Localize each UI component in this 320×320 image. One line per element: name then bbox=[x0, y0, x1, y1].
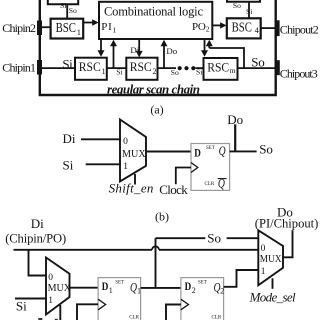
BSC cell above BSC4 (cut off) bbox=[227, 0, 260, 2]
svg-text:SET: SET bbox=[115, 280, 124, 285]
svg-text:MUX: MUX bbox=[48, 282, 71, 294]
wire Chipin1 to RSC1 bbox=[41, 67, 75, 69]
svg-text:Si: Si bbox=[60, 1, 66, 10]
svg-text:0: 0 bbox=[123, 137, 128, 147]
svg-text:1: 1 bbox=[137, 287, 141, 296]
wire Q to So bbox=[230, 150, 257, 152]
wire Di rail (c) with hop bbox=[14, 249, 153, 251]
svg-text:Di: Di bbox=[31, 216, 44, 231]
svg-text:(PI/Chipout): (PI/Chipout) bbox=[255, 216, 318, 230]
svg-text:Combinational logic: Combinational logic bbox=[104, 4, 203, 18]
wire Di into RSC2 (down arrow) bbox=[138, 39, 140, 53]
wire Di branch to MUX input 0 (c) bbox=[29, 250, 47, 276]
svg-text:2: 2 bbox=[153, 67, 157, 76]
wire Do riser (b) bbox=[234, 124, 236, 151]
svg-text:So: So bbox=[171, 68, 179, 77]
mux U1 (b) bbox=[120, 120, 146, 182]
svg-text:Si: Si bbox=[62, 56, 73, 71]
svg-text:SET: SET bbox=[198, 280, 207, 285]
svg-text:BSC: BSC bbox=[56, 20, 76, 35]
clock triangle D2 bbox=[181, 299, 189, 310]
svg-text:m: m bbox=[230, 66, 236, 75]
wire Si to MUX (b) bbox=[86, 163, 121, 165]
svg-text:Si: Si bbox=[246, 7, 252, 16]
wire RSC2 to dots bbox=[158, 67, 177, 69]
svg-text:Mode_sel: Mode_sel bbox=[249, 289, 296, 304]
svg-text:So: So bbox=[69, 6, 77, 15]
scan cell RSCm bbox=[204, 58, 238, 80]
svg-text:So: So bbox=[259, 141, 273, 156]
pad Chipin2 bbox=[37, 21, 42, 36]
svg-text:D: D bbox=[102, 279, 109, 293]
svg-text:Si: Si bbox=[63, 157, 74, 172]
svg-text:Q: Q bbox=[219, 144, 226, 158]
svg-text:RSC: RSC bbox=[130, 59, 152, 74]
wire RSC1 to RSC2 bbox=[107, 67, 127, 69]
svg-text:2: 2 bbox=[220, 287, 224, 296]
wire Q1 to D2 bbox=[141, 287, 181, 289]
wire select Mode_sel bbox=[272, 278, 274, 289]
svg-text:(Chipin/PO): (Chipin/PO) bbox=[5, 231, 66, 245]
pad Chipin1 bbox=[37, 60, 42, 75]
mux U4 (c right) bbox=[258, 230, 283, 285]
ellipsis dots bbox=[178, 66, 182, 70]
svg-text:Chipout3: Chipout3 bbox=[280, 66, 318, 80]
svg-text:D: D bbox=[194, 145, 201, 159]
svg-text:CLR: CLR bbox=[129, 315, 139, 320]
outer chip boundary box (a) bbox=[40, 0, 276, 95]
wire comb logic to BSC4 with arrow bbox=[212, 24, 222, 26]
svg-text:SET: SET bbox=[206, 146, 215, 151]
svg-text:Do: Do bbox=[166, 46, 177, 56]
svg-text:PO: PO bbox=[192, 21, 206, 33]
svg-text:Shift_en: Shift_en bbox=[109, 181, 154, 196]
wire dots to RSCm bbox=[196, 67, 204, 69]
svg-text:4: 4 bbox=[255, 25, 260, 35]
scan cell RSC2 bbox=[126, 58, 157, 80]
wire BSC1 to combinational logic with arrow bbox=[83, 22, 94, 24]
wire MUX output to Do (c) bbox=[283, 230, 293, 257]
svg-text:Di: Di bbox=[63, 131, 76, 146]
wire RSCm to Chipout3 bbox=[238, 67, 276, 69]
flip-flop U2 (b) bbox=[191, 144, 230, 191]
svg-text:RSC: RSC bbox=[79, 59, 101, 74]
svg-text:1: 1 bbox=[77, 27, 81, 37]
wire Do from RSC2 up into comb (up arrow) bbox=[163, 44, 165, 68]
svg-text:MUX: MUX bbox=[122, 148, 146, 160]
svg-text:1: 1 bbox=[48, 296, 53, 306]
svg-text:(b): (b) bbox=[155, 210, 169, 224]
boundary scan cell BSC1 bbox=[51, 19, 84, 39]
wire Si to MUX input 1 (c) bbox=[15, 298, 46, 300]
flip-flop D2 bbox=[181, 278, 224, 320]
svg-text:2: 2 bbox=[206, 25, 210, 34]
svg-text:1: 1 bbox=[123, 162, 128, 172]
label Shift_en fragments (cut at bottom) bbox=[38, 318, 42, 320]
svg-text:Chipin1: Chipin1 bbox=[2, 61, 36, 75]
wire Shift_en select (b) bbox=[134, 174, 136, 185]
clock triangle (b) bbox=[191, 163, 198, 173]
svg-text:1: 1 bbox=[102, 67, 106, 76]
svg-text:Chipout2: Chipout2 bbox=[280, 23, 319, 37]
svg-text:1: 1 bbox=[113, 26, 117, 35]
svg-text:1: 1 bbox=[261, 267, 266, 277]
svg-text:(a): (a) bbox=[150, 103, 163, 117]
svg-text:So: So bbox=[251, 55, 264, 70]
wire select (c left mux) bbox=[59, 305, 61, 320]
wire Do from RSC1 output up into comb (up arrow) bbox=[113, 44, 115, 68]
svg-text:So: So bbox=[207, 231, 221, 246]
flip-flop D1 bbox=[98, 278, 141, 320]
wire Clock to flip-flop bbox=[176, 168, 191, 185]
svg-text:Chipin2: Chipin2 bbox=[2, 21, 36, 35]
wire clock to D2 bbox=[166, 305, 181, 320]
wire top cell to BSC4 bbox=[248, 2, 250, 19]
wire clock to D1 bbox=[77, 304, 98, 320]
feedback wire So to comb logic bbox=[209, 48, 244, 68]
svg-text:RSC: RSC bbox=[207, 59, 229, 74]
svg-text:D: D bbox=[185, 279, 192, 293]
wire So rail bbox=[156, 237, 206, 239]
pad Chipout2 bbox=[275, 20, 280, 36]
BSC cell above BSC1 (cut off) bbox=[48, 0, 78, 4]
svg-text:BSC: BSC bbox=[232, 19, 252, 34]
svg-text:regular scan chain: regular scan chain bbox=[107, 81, 200, 96]
pad Chipout3 bbox=[275, 60, 280, 75]
wire MUX to D input (b) bbox=[146, 151, 191, 153]
mux U3 (c left) bbox=[46, 258, 70, 315]
svg-text:CLR: CLR bbox=[212, 315, 222, 320]
svg-text:CLR: CLR bbox=[205, 182, 215, 187]
svg-text:MUX: MUX bbox=[260, 253, 282, 265]
svg-text:2: 2 bbox=[192, 286, 196, 295]
wire Q1 riser to So rail bbox=[155, 238, 157, 288]
svg-text:Si: Si bbox=[16, 299, 27, 314]
svg-text:Si: Si bbox=[116, 67, 122, 76]
wire Di into RSC1 (down arrow) bbox=[100, 39, 102, 52]
wire Di into RSCm (down arrow) bbox=[204, 39, 206, 52]
wire top cell to BSC1 bbox=[66, 4, 68, 19]
svg-text:Do: Do bbox=[227, 112, 243, 127]
svg-text:1: 1 bbox=[109, 286, 113, 295]
wire Di to MUX (b) bbox=[81, 138, 121, 140]
svg-text:Q: Q bbox=[130, 280, 137, 294]
boundary scan cell BSC4 bbox=[227, 18, 261, 38]
wire Do from RSCm So up into comb (up arrow) bbox=[208, 44, 210, 48]
wire Q2 to MUX input 1 (c) bbox=[224, 270, 259, 287]
combinational logic block bbox=[99, 2, 212, 39]
svg-text:PI: PI bbox=[101, 21, 112, 33]
wire Chipin2 to BSC1 bbox=[41, 26, 51, 28]
clock triangle D1 bbox=[98, 299, 106, 310]
scan cell RSC1 bbox=[75, 58, 107, 80]
wire MUX to D1 bbox=[70, 287, 99, 289]
svg-text:Clock: Clock bbox=[159, 182, 188, 197]
wire So rail right segment bbox=[227, 237, 259, 239]
wire BSC4 to Chipout2 bbox=[261, 27, 276, 29]
svg-text:So: So bbox=[233, 1, 241, 10]
